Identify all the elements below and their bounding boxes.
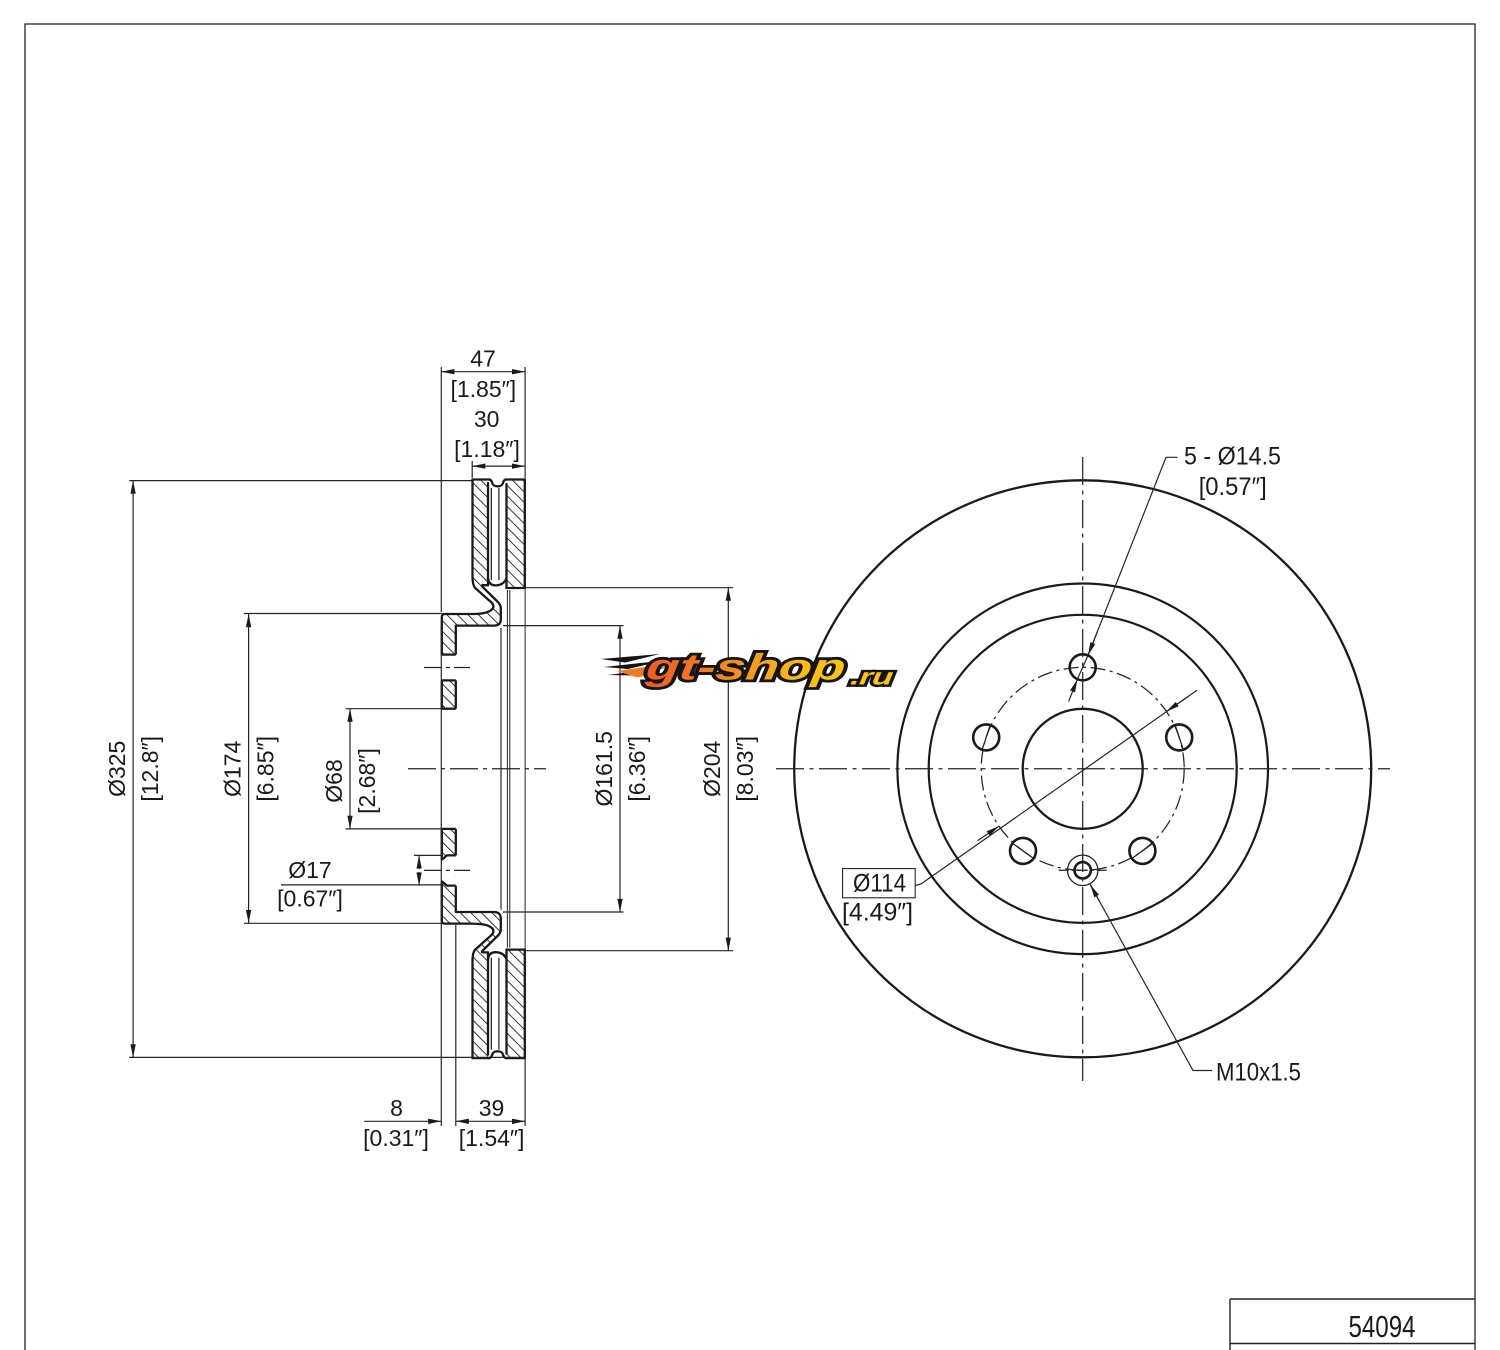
section bold outlines (lower half): [442, 912, 525, 1058]
dimension Ø204 extension lines: [526, 587, 733, 589]
bolt hole Ø14.5 white band in flange (upper): [440, 655, 457, 681]
svg-text:Ø174: Ø174: [219, 740, 245, 796]
front view circle Ø204/vent: [897, 584, 1268, 955]
svg-text:54094: 54094: [1349, 1310, 1416, 1344]
svg-text:47: 47: [470, 346, 496, 372]
dimension 8 line: [364, 1120, 441, 1122]
dimension Ø17 arrows: [418, 855, 420, 885]
bolt hole Ø14.5 edges in flange: [442, 655, 456, 681]
svg-text:[6.36″]: [6.36″]: [624, 736, 650, 802]
dimension Ø68 line: [349, 709, 351, 829]
front view center hole Ø68: [1023, 709, 1143, 829]
dimension Ø325 line: [132, 481, 134, 1058]
flange left face line: [441, 617, 443, 921]
dimension 30 extension line: [471, 461, 473, 478]
dimension Ø161.5 extension lines: [503, 625, 624, 627]
hat rim silhouette line: [500, 628, 502, 910]
gt-shop.ru watermark logo: [601, 646, 897, 690]
svg-text:[0.67″]: [0.67″]: [277, 886, 343, 912]
svg-text:[12.8″]: [12.8″]: [137, 736, 163, 802]
dimension Ø204 line: [727, 588, 729, 951]
bolt circle tick marks through holes: [982, 724, 1184, 859]
bolt hole Ø14.5 at 234 deg: [1010, 838, 1036, 864]
svg-text:Ø17: Ø17: [288, 857, 331, 883]
bolt hole Ø14.5 at 162 deg: [973, 724, 999, 750]
section hat+inboard-plate hatched body (upper half): [442, 480, 501, 769]
5-Ø14.5 leader arrows: [1069, 631, 1098, 701]
title block table: [1230, 1299, 1475, 1350]
M10x1.5 leader line: [1090, 883, 1213, 1070]
flange right face line: [455, 626, 457, 912]
svg-text:[0.31″]: [0.31″]: [363, 1125, 429, 1151]
dimension Ø325 extension lines: [129, 480, 471, 482]
section bold outlines (upper half): [442, 480, 525, 626]
svg-text:Ø114: Ø114: [853, 870, 906, 898]
front view outer circle Ø325: [794, 480, 1371, 1057]
dimension Ø174 line: [248, 614, 250, 923]
section outboard plate hatched bar (upper): [507, 480, 525, 589]
svg-text:Ø161.5: Ø161.5: [591, 731, 617, 806]
svg-text:[1.85″]: [1.85″]: [450, 376, 516, 402]
5-Ø14.5 leader line: [1088, 457, 1178, 655]
svg-text:[6.85″]: [6.85″]: [252, 736, 278, 802]
bolt hole Ø14.5 at 90 deg: [1070, 654, 1096, 680]
dimension Ø174 extension lines: [244, 613, 442, 615]
vent vane edge lines (upper): [491, 488, 499, 580]
bore Ø68 white band in flange: [440, 709, 457, 829]
Ø114 arrows on bolt circle: [978, 697, 1188, 841]
dimension 8/39 extension lines: [440, 626, 442, 1126]
svg-text:Ø204: Ø204: [699, 740, 725, 796]
svg-text:5 - Ø14.5: 5 - Ø14.5: [1184, 443, 1281, 471]
dimension 47 line: [441, 371, 525, 373]
svg-text:[1.18″]: [1.18″]: [454, 436, 520, 462]
svg-text:8: 8: [390, 1095, 403, 1121]
svg-text:Ø68: Ø68: [321, 759, 347, 802]
bolt circle Ø114 (dash-dot): [981, 667, 1184, 870]
svg-text:[4.49″]: [4.49″]: [842, 899, 913, 927]
dimension Ø17 extension lines: [414, 854, 442, 856]
svg-text:39: 39: [479, 1095, 505, 1121]
thread hole Ø17 white band in flange (lower): [440, 855, 456, 885]
section hat+inboard-plate hatched body (lower half): [442, 769, 501, 1058]
dimension 47 extension lines: [440, 367, 442, 612]
bolt hole Ø14.5 at 306 deg: [1129, 838, 1155, 864]
front view vertical centerline: [1082, 457, 1084, 1081]
section axis centerline: [408, 768, 546, 770]
svg-text:M10x1.5: M10x1.5: [1216, 1059, 1301, 1087]
vane silhouette lines mid-span: [507, 590, 509, 948]
svg-text:Ø325: Ø325: [104, 741, 130, 797]
thread hole axis tick (lower): [424, 869, 470, 871]
Ø114 boxed label: [843, 869, 916, 898]
Ø114 diagonal dimension line: [915, 690, 1197, 885]
dimension Ø161.5 line: [619, 626, 621, 912]
svg-text:30: 30: [474, 406, 500, 432]
svg-text:gt-shop: gt-shop: [643, 646, 848, 687]
dimension 39 line: [456, 1120, 525, 1122]
svg-text:[2.68″]: [2.68″]: [354, 748, 380, 814]
svg-text:.ru: .ru: [849, 664, 895, 690]
front view horizontal centerline: [776, 768, 1390, 770]
svg-text:[8.03″]: [8.03″]: [732, 736, 758, 802]
thread hole Ø17 edges in flange: [442, 855, 456, 885]
dimension Ø68 extension lines: [346, 708, 442, 710]
dimension 30 line: [472, 465, 525, 467]
bolt hole Ø14.5 at 18 deg: [1166, 724, 1192, 750]
bore Ø68 edges: [442, 709, 456, 829]
svg-text:[0.57″]: [0.57″]: [1199, 473, 1267, 501]
vent vane edge lines (lower): [491, 958, 499, 1050]
front view circle Ø174: [929, 615, 1237, 923]
M10x1.5 threaded hole: [1059, 855, 1107, 885]
section outboard plate hatched bar (lower): [507, 950, 525, 1059]
svg-text:[1.54″]: [1.54″]: [459, 1125, 525, 1151]
bolt hole axis tick (upper): [424, 667, 470, 669]
